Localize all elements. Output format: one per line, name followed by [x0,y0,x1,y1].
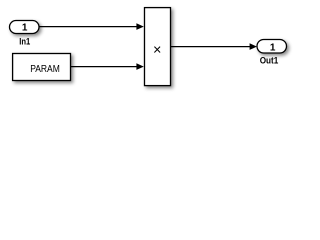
svg-text:1: 1 [22,23,28,34]
svg-text:Out1: Out1 [260,55,279,65]
svg-text:×: × [153,42,161,58]
svg-text:In1: In1 [19,37,30,47]
svg-text:1: 1 [270,42,276,53]
svg-text:PARAM: PARAM [30,64,60,75]
